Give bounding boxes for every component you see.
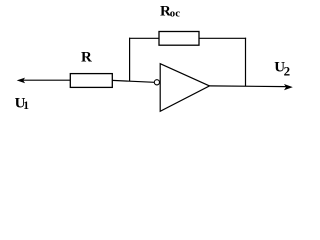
svg-text:R: R (81, 49, 92, 65)
svg-text:2: 2 (284, 64, 291, 79)
svg-text:1: 1 (23, 100, 29, 112)
svg-text:oc: oc (170, 7, 180, 19)
